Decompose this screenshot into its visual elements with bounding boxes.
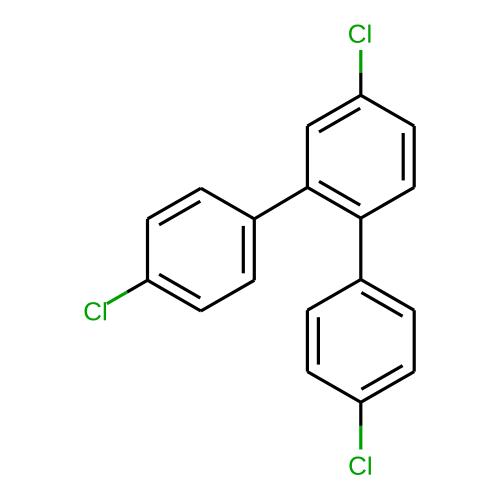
- bond C5''-C6'' bottom ring right: [413, 310, 416, 371]
- bond C2''-C3'' inner double line: [317, 317, 320, 364]
- bond C5'-C6' inner double line: [242, 226, 245, 273]
- bond C6''-C1'' inner double line: [361, 293, 402, 317]
- atom label Cl2 (left): [85, 302, 106, 320]
- bond C3'-Cl2 black half: [127, 280, 147, 292]
- bond C4-C1'' biaryl link to bottom ring: [359, 218, 362, 279]
- bond C4''-Cl3 green half: [359, 426, 362, 450]
- bond C6'-C1' left ring top-right: [201, 188, 254, 219]
- bond C1-C2 inner double line: [319, 108, 360, 132]
- bond C6-C1 central ring top-right: [361, 95, 414, 126]
- bond C3-C4 inner double line: [319, 181, 360, 205]
- bond C4''-C5'' bottom ring bottom-right (double, outer): [361, 372, 414, 403]
- bond C1-C2 central ring top-left (double, outer): [307, 95, 360, 126]
- bond C4''-Cl3 black half: [359, 402, 362, 426]
- bond C3'-C4' left ring bottom-left (double, outer): [148, 280, 201, 311]
- bond C4'-C5' left ring bottom-right: [201, 280, 254, 311]
- bond C1''-C2'' bottom ring top-left: [307, 280, 360, 311]
- bond C2''-C3'' bottom ring left (double, outer): [306, 310, 309, 371]
- bond C1-Cl1 black half: [359, 73, 362, 96]
- bond C1-Cl1 green half: [359, 50, 362, 73]
- bond C6''-C1'' bottom ring top-right (double, outer): [361, 280, 414, 311]
- bond C4-C5 central ring bottom-right: [361, 187, 414, 218]
- bond C2-C3 central ring left: [306, 126, 309, 187]
- bond C4''-C5'' inner double line: [361, 366, 402, 390]
- bond C3'-Cl2 green half: [107, 292, 127, 304]
- bond C1'-C2' left ring top-left (double, outer): [148, 188, 201, 219]
- bond C1'-C2' inner double line: [159, 201, 200, 225]
- bond C3''-C4'' bottom ring bottom-left: [307, 372, 360, 403]
- bond C5-C6 central ring right (double, outer): [413, 126, 416, 187]
- bond C2'-C3' left ring left side: [146, 219, 149, 280]
- bond C3-C4 central ring bottom-left (double, outer): [307, 187, 360, 218]
- bond C5-C6 inner double line: [402, 133, 405, 180]
- bond C3-C1' biaryl link to left ring: [254, 187, 307, 219]
- bond C5'-C6' left ring right (double, outer): [253, 219, 256, 280]
- atom label Cl3 (bottom): [349, 457, 370, 475]
- atom label Cl1 (top): [349, 25, 370, 43]
- bond C3'-C4' inner double line: [159, 274, 200, 298]
